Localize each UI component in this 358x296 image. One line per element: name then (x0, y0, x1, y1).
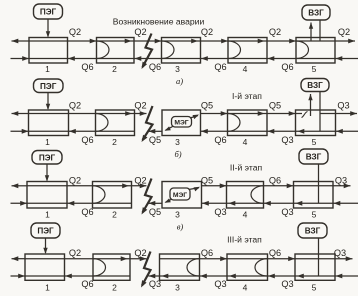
compressor arc (mirrored) in block 3 (row 4) (187, 259, 200, 276)
svg-text:Q3: Q3 (214, 279, 226, 289)
station block 4 (row 3) (227, 182, 264, 209)
lightning bolt break symbol (row 4) (142, 252, 151, 286)
arrowhead top wire end right (row 1) (348, 39, 355, 44)
station block 4 (row 1) (228, 38, 267, 64)
compressor arc in block 5 (row 1) (296, 41, 309, 59)
internal flow arrow top (row 4) (121, 256, 128, 261)
arrowhead bottom wire leftward at x=199.5 (row 4) (200, 274, 207, 279)
svg-text:4: 4 (243, 137, 248, 147)
wire bottom-left stub into block 1 (row 1) (11, 58, 30, 60)
arrowhead bottom wire leftward at x=263.5 (row 3) (264, 201, 271, 206)
svg-text:ПЭГ: ПЭГ (40, 8, 57, 17)
svg-text:2: 2 (112, 210, 117, 220)
svg-text:Q6: Q6 (269, 248, 281, 258)
internal flow arrow top (row 1) (258, 39, 265, 44)
svg-text:I-й этап: I-й этап (232, 91, 262, 101)
generator ВЗГ (row 2) (301, 79, 329, 92)
svg-text:Q2: Q2 (338, 27, 350, 37)
mobile generator МЭГ (row 2) (172, 117, 192, 128)
arrowhead bottom wire leftward at x=134 (row 1) (135, 56, 142, 61)
wire ВЗГ down to bottom bus (row 3) (318, 164, 320, 203)
svg-text:ПЭГ: ПЭГ (40, 82, 57, 91)
arrowhead into block at x=96.5 top (row 1) (90, 39, 97, 44)
wire top bus right of break (row 4) (160, 258, 353, 260)
arrowhead into block at x=226.5 top (row 3) (220, 183, 227, 188)
generator ВЗГ (row 1) (302, 5, 330, 20)
svg-text:Q2: Q2 (201, 27, 213, 37)
wire bottom bus from block 3 to break with arrow (row 4) (149, 275, 160, 277)
wire top bus left of break (row 2) (29, 113, 147, 115)
station block 4 (row 4) (227, 254, 268, 280)
disconnect slash on top bus (row 2) (302, 112, 308, 118)
generator ВЗГ (row 4) (298, 223, 327, 238)
compressor arc in block 2 (row 3) (93, 186, 105, 204)
wire top-left stub with out-arrow (row 4) (12, 258, 26, 260)
wire block5 up to ВЗГ with arrow (row 2) (310, 94, 312, 116)
svg-text:Q5: Q5 (201, 176, 213, 186)
svg-text:5: 5 (312, 64, 317, 74)
svg-text:Q3: Q3 (335, 176, 347, 186)
wire bottom bus left part (row 4) (25, 275, 130, 277)
arrowhead bottom wire leftward at x=267 (row 1) (268, 56, 275, 61)
arrowhead bottom wire leftward at x=68.5 (row 2) (69, 129, 76, 134)
wire top-left stub with out-arrow (row 3) (12, 185, 28, 187)
station block 3 (row 4) (160, 254, 200, 280)
wire bottom bus left part (row 2) (29, 130, 135, 132)
wire block5 up to ВЗГ with arrow (row 1) (310, 23, 312, 42)
svg-text:4: 4 (243, 64, 248, 74)
generator ПЭГ (row 3) (32, 151, 62, 165)
svg-text:4: 4 (243, 282, 248, 292)
svg-text:Q6: Q6 (81, 135, 93, 145)
internal flow arrow bottom (row 2) (298, 129, 305, 134)
arrowhead into block at x=293.5 top (row 3) (287, 183, 294, 188)
svg-text:Q2: Q2 (134, 101, 146, 111)
station block 1 (row 1) (29, 38, 68, 64)
arrowhead top wire end right (row 4) (346, 256, 353, 261)
svg-text:2: 2 (112, 137, 117, 147)
svg-text:1: 1 (45, 137, 50, 147)
wire МЭГ to bottom bus SW (row 2) (166, 126, 174, 130)
compressor arc (mirrored) in block 4 (row 4) (255, 259, 268, 276)
arrowhead bottom wire leftward at x=67 (row 3) (68, 201, 75, 206)
svg-text:4: 4 (243, 210, 248, 220)
svg-text:МЭГ: МЭГ (174, 120, 188, 127)
wire МЭГ to bottom bus SW (row 3) (166, 199, 173, 202)
wire top bus left of break (row 4) (25, 258, 147, 260)
wire bottom bus right part (row 4) (160, 275, 358, 277)
arrowhead top wire end right (row 3) (344, 183, 351, 188)
internal flow arrow bottom (row 3) (229, 201, 236, 206)
svg-text:II-й этап: II-й этап (230, 163, 263, 173)
station block 1 (row 4) (25, 254, 65, 280)
svg-text:Возникновение аварии: Возникновение аварии (113, 17, 205, 27)
wire top bus right of break (row 2) (201, 113, 303, 115)
station block 2 (row 1) (97, 38, 135, 64)
svg-text:ВЗГ: ВЗГ (305, 227, 321, 236)
station block 5 (row 3) (294, 182, 334, 209)
arrowhead bottom wire leftward at x=335 (row 1) (336, 56, 343, 61)
lightning bolt break symbol (row 1) (143, 34, 153, 68)
arrowhead into block at x=295.5 top (row 2) (289, 111, 296, 116)
wire bottom bus (row 1) (29, 58, 358, 60)
svg-text:1: 1 (45, 64, 50, 74)
station block 5 (row 1) (296, 38, 335, 64)
generator ВЗГ (row 3) (299, 149, 328, 164)
svg-text:Q3: Q3 (281, 207, 293, 217)
station block 5 (row 4) (295, 254, 335, 280)
svg-text:Q2: Q2 (69, 101, 81, 111)
wire top-left stub with out-arrow (row 2) (12, 113, 29, 115)
svg-text:Q3: Q3 (149, 279, 161, 289)
wire bottom bus right part (row 3) (202, 202, 358, 204)
svg-text:Q3: Q3 (334, 248, 346, 258)
arrowhead bottom wire leftward at x=333 (row 3) (334, 201, 341, 206)
svg-text:Q2: Q2 (269, 27, 281, 37)
wire МЭГ to top bus NE (row 3) (189, 188, 200, 190)
svg-text:Q2: Q2 (69, 27, 81, 37)
svg-text:2: 2 (112, 282, 117, 292)
arrowhead into block at x=295 top (row 4) (288, 256, 295, 261)
svg-text:Q3: Q3 (281, 279, 293, 289)
wire bottom bus right part (row 2) (201, 130, 358, 132)
station block 1 (row 3) (27, 182, 67, 209)
wire bottom bus from block 3 to break with arrow (row 3) (149, 202, 163, 204)
svg-text:Q6: Q6 (281, 62, 293, 72)
station block 1 (row 2) (29, 110, 69, 136)
svg-text:3: 3 (175, 282, 180, 292)
svg-text:ПЭГ: ПЭГ (39, 153, 56, 162)
internal flow arrow top (row 3) (122, 183, 129, 188)
arrowhead into block at x=161.5 top (row 1) (155, 39, 162, 44)
lightning bolt break symbol (row 2) (143, 106, 153, 140)
internal flow arrow bottom (row 4) (162, 274, 169, 279)
compressor arc in block 4 (row 2) (228, 114, 241, 132)
svg-text:3: 3 (175, 64, 180, 74)
svg-text:а): а) (176, 76, 183, 86)
wire top bus right of break (row 3) (202, 185, 351, 187)
svg-text:Q6: Q6 (269, 176, 281, 186)
svg-text:ВЗГ: ВЗГ (308, 9, 324, 18)
station block 2 (row 2) (96, 110, 135, 136)
generator ПЭГ (row 1) (34, 4, 63, 19)
arrowhead top wire end right (row 2) (350, 111, 357, 116)
svg-text:Q2: Q2 (69, 176, 81, 186)
svg-text:ВЗГ: ВЗГ (306, 153, 322, 162)
svg-text:Q5: Q5 (149, 207, 161, 217)
svg-text:5: 5 (312, 210, 317, 220)
svg-text:Q5: Q5 (269, 101, 281, 111)
wire ВЗГ down to bottom bus (row 2) (319, 92, 321, 132)
generator ПЭГ (row 4) (31, 223, 60, 238)
arrowhead bottom wire leftward at x=200.5 (row 1) (201, 56, 208, 61)
svg-text:1: 1 (45, 210, 50, 220)
svg-text:ПЭГ: ПЭГ (37, 227, 54, 236)
arrowhead bottom wire leftward at x=267.5 (row 4) (268, 274, 275, 279)
lightning bolt break symbol (row 3) (143, 179, 152, 213)
arrowhead bottom wire leftward at x=64.5 (row 4) (65, 274, 72, 279)
svg-text:Q3: Q3 (214, 207, 226, 217)
svg-text:Q6: Q6 (201, 248, 213, 258)
internal flow arrow top (row 2) (258, 111, 265, 116)
internal flow arrow bottom (row 4) (229, 274, 236, 279)
wire ПЭГ to block 1 (row 3) (46, 164, 48, 181)
svg-text:Q2: Q2 (134, 176, 146, 186)
compressor arc in block 2 (row 2) (96, 114, 109, 132)
compressor arc in block 3 (row 1) (162, 41, 175, 59)
wire top bus (row 1) (29, 40, 355, 42)
wire top bus left of break (row 3) (27, 185, 147, 187)
arrowhead into block at x=227 top (row 4) (220, 256, 227, 261)
arrowhead bottom wire leftward at x=335 (row 4) (336, 274, 343, 279)
svg-text:в): в) (177, 222, 184, 232)
compressor arc (mirrored) in block 4 (row 3) (251, 186, 264, 204)
station block 3 (row 1) (162, 38, 201, 64)
wire top-left stub with out-arrow (row 1) (12, 40, 30, 42)
svg-text:МЭГ: МЭГ (173, 192, 187, 199)
internal flow arrow top (row 1) (191, 39, 198, 44)
svg-text:III-й этап: III-й этап (227, 235, 262, 245)
svg-text:Q6: Q6 (214, 135, 226, 145)
compressor arc in block 2 (row 1) (97, 41, 109, 59)
arrowhead into block at x=296 top (row 1) (289, 39, 296, 44)
svg-text:Q2: Q2 (134, 27, 146, 37)
wire ПЭГ to block 1 (row 4) (45, 238, 47, 253)
svg-text:5: 5 (312, 137, 317, 147)
wire ВЗГ down to bottom bus (row 4) (318, 238, 320, 276)
svg-text:3: 3 (175, 137, 180, 147)
svg-text:Q2: Q2 (69, 248, 81, 258)
station block 3 (row 3) (162, 182, 202, 209)
svg-text:1: 1 (45, 282, 50, 292)
svg-text:Q6: Q6 (81, 279, 93, 289)
wire bottom bus left part (row 3) (27, 202, 132, 204)
generator ПЭГ (row 2) (34, 79, 64, 93)
internal flow arrow top (row 2) (125, 111, 132, 116)
station block 2 (row 4) (93, 254, 130, 280)
svg-text:Q3: Q3 (337, 101, 349, 111)
svg-text:Q2: Q2 (134, 248, 146, 258)
station block 5 (row 2) (296, 110, 336, 136)
wire top bus after disconnect (row 2) (320, 113, 357, 115)
compressor arc in block 2 (row 4) (93, 259, 106, 276)
svg-text:Q6: Q6 (81, 207, 93, 217)
arrowhead into block at x=228 top (row 1) (221, 39, 228, 44)
station block 4 (row 2) (228, 110, 268, 136)
wire bottom bus from block 3 to break with arrow (row 2) (149, 130, 163, 132)
svg-text:Q5: Q5 (149, 135, 161, 145)
wire МЭГ to top bus NE (row 2) (190, 116, 198, 119)
arrowhead bottom wire leftward at x=67.5 (row 1) (68, 56, 75, 61)
svg-text:Q6: Q6 (149, 62, 161, 72)
svg-text:Q6: Q6 (214, 62, 226, 72)
arrowhead bottom wire leftward at x=335.5 (row 2) (336, 129, 343, 134)
svg-text:2: 2 (112, 64, 117, 74)
arrowhead bottom wire leftward at x=201.5 (row 3) (202, 201, 209, 206)
mobile generator МЭГ (row 3) (170, 188, 190, 200)
compressor arc in block 4 (row 1) (228, 41, 241, 59)
wire ПЭГ to block 1 (row 1) (47, 19, 49, 37)
arrowhead bottom wire leftward at x=267 (row 2) (268, 129, 275, 134)
wire bottom-left stub into block 1 (row 3) (11, 202, 28, 204)
svg-text:Q5: Q5 (201, 101, 213, 111)
internal flow arrow bottom (row 4) (297, 274, 304, 279)
wire bottom-left stub into block 1 (row 2) (11, 130, 29, 132)
arrowhead into block at x=227.5 top (row 2) (221, 111, 228, 116)
internal flow arrow bottom (row 3) (296, 201, 303, 206)
wire ПЭГ to block 1 (row 2) (47, 93, 49, 110)
station block 3 (row 2) (162, 110, 201, 136)
wire ВЗГ down into block5 (row 1) (319, 20, 321, 41)
internal flow arrow top (row 1) (125, 39, 132, 44)
svg-text:б): б) (174, 149, 181, 159)
svg-text:5: 5 (312, 282, 317, 292)
wire bottom-left stub into block 1 (row 4) (11, 275, 26, 277)
arrowhead bottom wire leftward at x=200.5 (row 2) (201, 129, 208, 134)
svg-text:Q6: Q6 (81, 62, 93, 72)
station block 2 (row 3) (93, 182, 132, 209)
svg-text:Q3: Q3 (281, 135, 293, 145)
svg-text:ВЗГ: ВЗГ (307, 81, 323, 90)
svg-text:3: 3 (175, 210, 180, 220)
